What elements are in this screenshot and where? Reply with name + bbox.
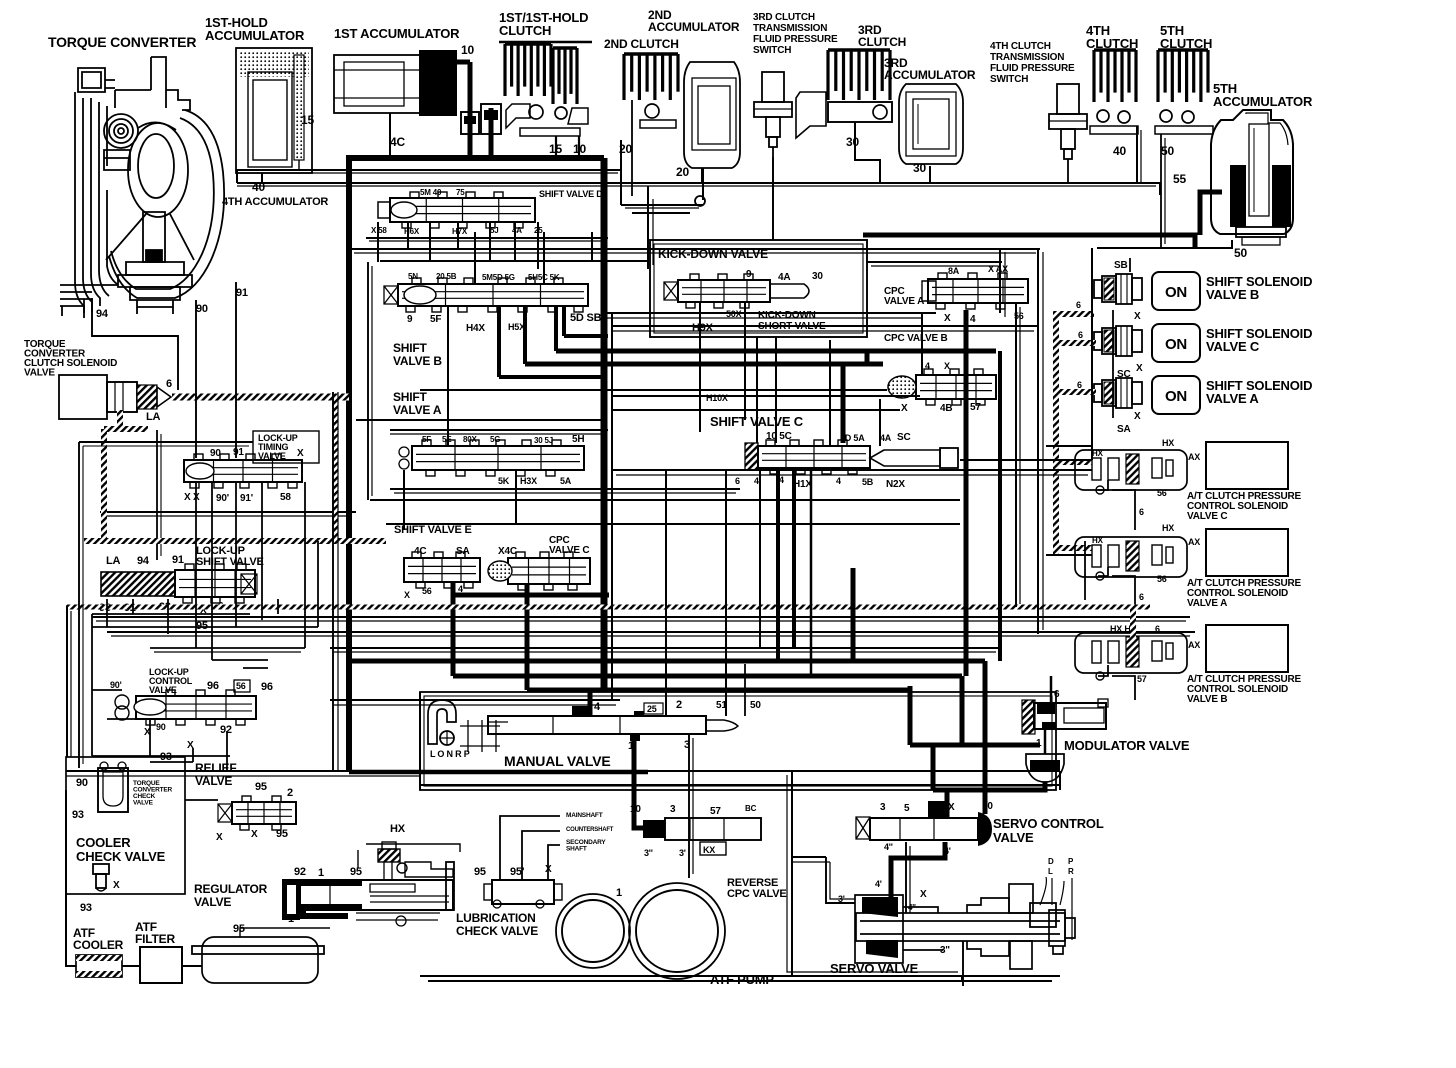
svg-text:10: 10 bbox=[461, 43, 474, 57]
svg-text:4C: 4C bbox=[390, 135, 405, 149]
wire servo box right edge bbox=[962, 941, 964, 986]
manual valve handle bbox=[428, 700, 456, 744]
svg-text:H10X: H10X bbox=[706, 393, 728, 403]
cpc valve C bbox=[508, 558, 590, 584]
svg-text:5F: 5F bbox=[430, 314, 441, 325]
svg-text:HX: HX bbox=[1162, 523, 1174, 533]
svg-text:56: 56 bbox=[422, 586, 432, 596]
svg-text:30: 30 bbox=[913, 161, 926, 175]
svg-text:H5X: H5X bbox=[508, 322, 525, 332]
wire thick segment y772 bbox=[349, 770, 648, 775]
shift valve B bbox=[398, 284, 588, 306]
svg-text:VALVE C: VALVE C bbox=[1206, 339, 1260, 354]
wire 1st-hold accumulator to line 40 bbox=[261, 173, 263, 183]
lubrication check valve bbox=[492, 880, 554, 904]
svg-text:H3X: H3X bbox=[520, 476, 537, 486]
wire thick vertical x604 bbox=[601, 158, 608, 689]
svg-text:4': 4' bbox=[944, 846, 951, 856]
svg-text:AX: AX bbox=[1188, 452, 1200, 462]
wire hatched long line y607 bbox=[66, 605, 1150, 610]
svg-text:95: 95 bbox=[350, 866, 362, 878]
svg-text:30: 30 bbox=[846, 135, 859, 149]
svg-text:4A: 4A bbox=[778, 272, 790, 283]
svg-text:3'': 3'' bbox=[644, 848, 653, 858]
svg-text:5F: 5F bbox=[422, 435, 431, 444]
atf cooler bbox=[76, 955, 122, 977]
svg-text:X: X bbox=[920, 889, 927, 900]
svg-text:30: 30 bbox=[812, 271, 823, 282]
svg-text:93: 93 bbox=[72, 809, 84, 821]
wires lubrication to shafts bbox=[500, 816, 560, 880]
svg-text:VALVE A: VALVE A bbox=[884, 296, 924, 307]
svg-text:FLUID PRESSURE: FLUID PRESSURE bbox=[753, 34, 838, 45]
svg-text:6: 6 bbox=[1076, 300, 1081, 310]
svg-text:40: 40 bbox=[1113, 144, 1126, 158]
lock-up shift valve bbox=[101, 572, 175, 596]
svg-text:8A: 8A bbox=[948, 266, 960, 276]
wire thick manual to reverse cpc bbox=[634, 734, 643, 828]
shift valve A bbox=[412, 446, 584, 470]
svg-text:10 5C: 10 5C bbox=[766, 431, 792, 442]
wire pair x157 bbox=[156, 430, 158, 560]
servo valve bbox=[855, 884, 1075, 969]
svg-text:4B: 4B bbox=[940, 403, 952, 414]
svg-text:3RD CLUTCH: 3RD CLUTCH bbox=[753, 12, 815, 23]
svg-text:5M 40: 5M 40 bbox=[420, 188, 442, 197]
svg-text:4': 4' bbox=[875, 879, 882, 889]
wire servo 3-prime approach bbox=[826, 857, 855, 903]
svg-text:MANUAL VALVE: MANUAL VALVE bbox=[504, 753, 611, 769]
wire thick manual valve port 4 stub bbox=[588, 689, 593, 716]
torque converter check valve bbox=[98, 768, 128, 812]
torque converter clutch solenoid valve bbox=[59, 375, 107, 419]
svg-text:25: 25 bbox=[647, 704, 657, 714]
svg-text:R: R bbox=[1068, 867, 1074, 876]
wire cooler-filter-strainer bbox=[122, 965, 140, 967]
svg-text:5A: 5A bbox=[560, 476, 572, 486]
regulator valve black elbow bbox=[303, 906, 348, 916]
svg-text:COOLER: COOLER bbox=[73, 938, 124, 952]
wire lockup area box top bbox=[79, 441, 253, 443]
manual valve spool bbox=[488, 716, 706, 734]
svg-text:90': 90' bbox=[110, 680, 122, 690]
wire hatched drain from tc solenoid X bbox=[117, 410, 123, 429]
shift solenoid valve A ON box bbox=[1152, 376, 1200, 414]
svg-text:6: 6 bbox=[1054, 689, 1060, 700]
wire long lubrication line bbox=[366, 844, 460, 852]
svg-text:1: 1 bbox=[288, 913, 294, 925]
wire hatched from tc solenoid bbox=[172, 394, 349, 401]
svg-text:HX: HX bbox=[1092, 449, 1104, 458]
svg-text:ACCUMULATOR: ACCUMULATOR bbox=[205, 28, 305, 43]
1st accumulator bbox=[334, 50, 457, 116]
svg-text:COUNTERSHAFT: COUNTERSHAFT bbox=[566, 827, 614, 833]
svg-text:KICK-DOWN: KICK-DOWN bbox=[758, 310, 816, 321]
svg-text:92: 92 bbox=[294, 866, 306, 878]
relief valve bbox=[232, 802, 296, 824]
svg-text:91': 91' bbox=[240, 493, 253, 504]
svg-text:L: L bbox=[1048, 867, 1053, 876]
wire long thick line y158 bbox=[346, 155, 604, 161]
svg-text:VALVE: VALVE bbox=[133, 800, 154, 807]
svg-text:30 5J: 30 5J bbox=[534, 436, 553, 445]
3rd clutch transmission fluid pressure switch bbox=[762, 72, 784, 102]
kick-down short valve plunger bbox=[770, 284, 809, 298]
cooler check valve bbox=[93, 864, 109, 874]
shift solenoid valve B ON box bbox=[1152, 272, 1200, 310]
wires solenoid feeds hatched bbox=[1053, 312, 1059, 556]
svg-text:5K: 5K bbox=[498, 476, 510, 486]
svg-text:X: X bbox=[944, 313, 951, 324]
svg-text:SC: SC bbox=[897, 432, 911, 443]
svg-text:KX: KX bbox=[703, 845, 715, 855]
wire hatched vertical x335 bbox=[332, 397, 338, 541]
svg-text:5J: 5J bbox=[490, 226, 499, 235]
svg-text:6: 6 bbox=[1077, 380, 1082, 390]
svg-text:SC: SC bbox=[1117, 369, 1131, 380]
1st-hold accumulator bbox=[236, 48, 312, 173]
svg-text:6: 6 bbox=[735, 476, 740, 486]
wires modulator valve bbox=[1044, 729, 1047, 754]
wire thick cpc valve C down bbox=[525, 584, 530, 690]
svg-text:SHIFT: SHIFT bbox=[393, 341, 428, 355]
torque converter bbox=[60, 57, 224, 318]
svg-text:6: 6 bbox=[166, 378, 172, 390]
svg-text:50: 50 bbox=[1234, 246, 1247, 260]
4th clutch bbox=[1090, 50, 1138, 134]
svg-text:FLUID PRESSURE: FLUID PRESSURE bbox=[990, 63, 1075, 74]
svg-text:H4X: H4X bbox=[466, 323, 485, 334]
svg-text:VALVE: VALVE bbox=[24, 368, 55, 379]
cpc valve B bbox=[916, 375, 996, 399]
svg-text:SA: SA bbox=[456, 546, 470, 557]
svg-text:REGULATOR: REGULATOR bbox=[194, 882, 268, 896]
atf filter bbox=[140, 947, 182, 983]
svg-text:55: 55 bbox=[1173, 172, 1186, 186]
check valve below 1st accumulator bbox=[461, 112, 479, 134]
3rd clutch bbox=[796, 50, 892, 138]
wire thick 55 to 5th accumulator bbox=[1200, 192, 1222, 235]
svg-text:6: 6 bbox=[1139, 507, 1144, 517]
svg-text:1ST ACCUMULATOR: 1ST ACCUMULATOR bbox=[334, 26, 460, 41]
wire thick line y235 to 5th accumulator bbox=[863, 235, 1195, 248]
svg-text:5M5D 5G: 5M5D 5G bbox=[482, 273, 515, 282]
svg-text:VALVE B: VALVE B bbox=[1187, 694, 1227, 705]
svg-text:H7X: H7X bbox=[452, 227, 468, 236]
wire thick shift valve E down bbox=[451, 582, 456, 676]
svg-text:SWITCH: SWITCH bbox=[990, 74, 1028, 85]
svg-text:VALVE: VALVE bbox=[194, 895, 231, 909]
servo valve top tabs bbox=[1030, 903, 1056, 927]
a/t clutch pressure control solenoid valve A block bbox=[1206, 529, 1288, 576]
manual valve detent bbox=[460, 720, 500, 752]
svg-text:ATF PUMP: ATF PUMP bbox=[710, 972, 774, 987]
svg-text:5D SB: 5D SB bbox=[570, 312, 602, 324]
modulator valve bbox=[1022, 700, 1035, 734]
svg-text:20: 20 bbox=[676, 165, 689, 179]
wire 10 down to thick line bbox=[578, 136, 580, 158]
wire long line y183 bbox=[237, 183, 1160, 195]
svg-text:90: 90 bbox=[76, 777, 88, 789]
svg-text:H6X: H6X bbox=[404, 227, 420, 236]
2nd clutch bbox=[624, 54, 678, 128]
wire left thin pair x79 bbox=[78, 442, 80, 768]
wire from 3rd accumulator down bbox=[929, 166, 931, 183]
svg-text:ACCUMULATOR: ACCUMULATOR bbox=[1213, 94, 1313, 109]
svg-text:5H: 5H bbox=[572, 434, 584, 445]
svg-text:X: X bbox=[1134, 311, 1141, 322]
wire 30 from 3rd clutch down bbox=[855, 122, 880, 183]
wire frame bottom servo bbox=[792, 771, 962, 981]
svg-text:50: 50 bbox=[1161, 144, 1174, 158]
wire left-bottom mesh verticals bbox=[66, 607, 68, 757]
svg-text:X: X bbox=[297, 448, 304, 459]
svg-text:SWITCH: SWITCH bbox=[753, 45, 791, 56]
svg-text:SA: SA bbox=[1117, 424, 1131, 435]
svg-text:90: 90 bbox=[210, 448, 221, 459]
svg-text:AX: AX bbox=[1188, 640, 1200, 650]
wires a/t cpc valves bbox=[1098, 480, 1108, 490]
wire double line y238 below shift valve D bbox=[366, 237, 608, 239]
svg-text:TRANSMISSION: TRANSMISSION bbox=[990, 52, 1064, 63]
svg-text:4TH ACCUMULATOR: 4TH ACCUMULATOR bbox=[222, 196, 328, 208]
svg-text:X: X bbox=[216, 832, 223, 843]
svg-text:SHIFT: SHIFT bbox=[393, 390, 428, 404]
svg-text:56: 56 bbox=[236, 681, 246, 691]
svg-text:80X: 80X bbox=[463, 435, 477, 444]
svg-text:5: 5 bbox=[904, 803, 910, 814]
svg-text:4C: 4C bbox=[414, 546, 426, 557]
svg-text:SERVO CONTROL: SERVO CONTROL bbox=[993, 816, 1104, 831]
svg-text:VALVE A: VALVE A bbox=[1206, 391, 1259, 406]
svg-text:95: 95 bbox=[196, 620, 208, 632]
kick-down valve bbox=[678, 280, 770, 302]
svg-text:75: 75 bbox=[456, 188, 465, 197]
svg-text:H9X: H9X bbox=[692, 322, 714, 334]
wire thick check valve down bbox=[489, 108, 494, 158]
svg-text:4A: 4A bbox=[512, 226, 522, 235]
svg-text:VALVE C: VALVE C bbox=[549, 545, 589, 556]
svg-text:95: 95 bbox=[276, 828, 288, 840]
wire 91 bbox=[235, 282, 237, 458]
svg-text:93: 93 bbox=[80, 902, 92, 914]
regulator valve bbox=[282, 879, 300, 920]
shift valve D bbox=[390, 198, 535, 222]
svg-text:4A: 4A bbox=[880, 433, 892, 443]
svg-text:X4C: X4C bbox=[498, 546, 517, 557]
svg-text:FILTER: FILTER bbox=[135, 932, 175, 946]
wire from 4th switch down bbox=[1067, 159, 1069, 183]
svg-text:4: 4 bbox=[754, 476, 759, 486]
svg-text:D: D bbox=[1048, 857, 1054, 866]
svg-text:TORQUE CONVERTER: TORQUE CONVERTER bbox=[48, 34, 196, 50]
servo valve black piston bottom bbox=[866, 940, 898, 958]
svg-text:92: 92 bbox=[220, 724, 232, 736]
svg-text:4'': 4'' bbox=[908, 903, 916, 912]
svg-text:91: 91 bbox=[236, 287, 248, 299]
svg-text:CPC VALVE: CPC VALVE bbox=[727, 888, 787, 900]
svg-text:4TH CLUTCH: 4TH CLUTCH bbox=[990, 41, 1051, 52]
wire strainer inlet bbox=[240, 928, 330, 937]
atf pump gear 1 bbox=[556, 894, 630, 968]
shift solenoid valve B solenoid symbol bbox=[1094, 280, 1102, 298]
svg-text:4: 4 bbox=[836, 476, 841, 486]
regulator valve top bolt bbox=[378, 849, 400, 862]
wire 94 bbox=[92, 298, 178, 390]
svg-text:VALVE: VALVE bbox=[993, 830, 1034, 845]
svg-text:HX: HX bbox=[1162, 438, 1174, 448]
3rd accumulator bbox=[899, 84, 963, 164]
svg-text:6: 6 bbox=[1139, 592, 1144, 602]
1st/1st-hold clutch bbox=[499, 42, 592, 136]
lock-up control valve bbox=[136, 696, 256, 719]
wire mesh horizontal lines bbox=[632, 212, 690, 214]
wire from 3rd switch down bbox=[772, 147, 774, 240]
svg-text:RELIEF: RELIEF bbox=[195, 761, 236, 775]
kick-down valve enclosure bbox=[650, 240, 867, 337]
wire mesh vertical lines bbox=[377, 222, 379, 262]
enclosure cooler check valve box bbox=[66, 757, 185, 894]
wire 20 elbow from 2nd clutch to shift valve D bbox=[620, 140, 622, 205]
wire box to relief valve bbox=[185, 799, 218, 801]
enclosure kick-down feeder bbox=[772, 157, 774, 240]
svg-text:SHIFT VALVE D: SHIFT VALVE D bbox=[539, 189, 603, 199]
shift valve E bbox=[404, 558, 480, 582]
svg-text:94: 94 bbox=[137, 555, 150, 567]
svg-text:VALVE C: VALVE C bbox=[1187, 511, 1227, 522]
svg-text:SHIFT VALVE: SHIFT VALVE bbox=[196, 556, 264, 568]
4th clutch transmission fluid pressure switch bbox=[1057, 84, 1079, 114]
check valve 2 below 1st accumulator bbox=[481, 104, 501, 134]
wire thin 50 line to 5th accumulator bbox=[1097, 240, 1232, 248]
reverse cpc valve bbox=[643, 820, 665, 838]
servo control valve bbox=[856, 817, 870, 839]
svg-text:ACCUMULATOR: ACCUMULATOR bbox=[884, 68, 976, 82]
svg-text:95: 95 bbox=[233, 923, 245, 935]
svg-text:AX: AX bbox=[1188, 537, 1200, 547]
wire hatched horizontal mid-left bbox=[84, 538, 386, 544]
svg-text:X X: X X bbox=[184, 492, 200, 503]
svg-text:95: 95 bbox=[474, 866, 486, 878]
svg-text:CHECK VALVE: CHECK VALVE bbox=[76, 849, 166, 864]
modulator valve cup bbox=[1026, 754, 1064, 782]
svg-text:X: X bbox=[251, 829, 258, 840]
shift solenoid valve A solenoid symbol bbox=[1094, 384, 1102, 402]
svg-text:9: 9 bbox=[407, 314, 413, 325]
svg-text:VALVE A: VALVE A bbox=[1187, 598, 1227, 609]
svg-text:X: X bbox=[404, 590, 410, 600]
svg-text:15: 15 bbox=[301, 113, 314, 127]
a/t clutch pressure control solenoid valve C block bbox=[1206, 442, 1288, 489]
svg-text:N2X: N2X bbox=[886, 479, 905, 490]
svg-text:HX: HX bbox=[390, 823, 406, 835]
svg-text:56: 56 bbox=[1157, 574, 1167, 584]
svg-text:3'': 3'' bbox=[940, 945, 950, 956]
wire left loop to atf cooler bbox=[66, 790, 76, 966]
atf strainer pan bbox=[202, 937, 318, 983]
svg-text:X: X bbox=[1136, 363, 1143, 374]
svg-text:X: X bbox=[901, 403, 908, 414]
svg-text:CPC VALVE B: CPC VALVE B bbox=[884, 333, 948, 344]
shift valve C right plunger bbox=[870, 450, 940, 466]
svg-text:VALVE A: VALVE A bbox=[393, 403, 442, 417]
svg-text:SHAFT: SHAFT bbox=[566, 846, 587, 853]
svg-text:91: 91 bbox=[233, 447, 244, 458]
wire port 3 down bbox=[688, 734, 690, 878]
svg-text:ON: ON bbox=[1165, 336, 1187, 353]
servo valve black piston top bbox=[862, 897, 898, 917]
svg-text:SB: SB bbox=[1114, 260, 1128, 271]
wires D L P R bbox=[1040, 877, 1064, 905]
svg-text:LA: LA bbox=[106, 555, 121, 567]
svg-text:3: 3 bbox=[670, 804, 676, 815]
wire left-bottom mesh horizontals bbox=[212, 659, 268, 661]
svg-text:6: 6 bbox=[1078, 330, 1083, 340]
svg-text:4: 4 bbox=[970, 314, 976, 325]
wire from 4th clutch down bbox=[1136, 126, 1138, 183]
wire 20 from 2nd clutch down bbox=[631, 100, 633, 196]
svg-text:3': 3' bbox=[679, 848, 686, 858]
atf pump gear 2 bbox=[629, 883, 725, 979]
svg-text:50: 50 bbox=[750, 700, 761, 711]
svg-text:2: 2 bbox=[287, 787, 293, 799]
svg-text:L O N R P: L O N R P bbox=[430, 749, 470, 759]
svg-text:CHECK VALVE: CHECK VALVE bbox=[456, 924, 538, 938]
wire thick from 1st accumulator down (10) bbox=[468, 62, 473, 158]
shift solenoid valve C ON box bbox=[1152, 324, 1200, 362]
svg-text:58: 58 bbox=[280, 492, 291, 503]
svg-text:ON: ON bbox=[1165, 388, 1187, 405]
svg-text:20 5B: 20 5B bbox=[436, 272, 457, 281]
svg-text:2ND CLUTCH: 2ND CLUTCH bbox=[604, 37, 679, 51]
svg-text:90: 90 bbox=[156, 722, 166, 732]
wire from 2nd accumulator down bbox=[701, 168, 703, 183]
svg-text:9: 9 bbox=[746, 269, 752, 280]
svg-text:57: 57 bbox=[1137, 674, 1147, 684]
svg-text:90': 90' bbox=[216, 493, 229, 504]
svg-text:1: 1 bbox=[318, 867, 324, 879]
svg-text:SHIFT VALVE E: SHIFT VALVE E bbox=[394, 524, 472, 536]
enclosure shift valve group box left bbox=[367, 262, 369, 500]
svg-text:90: 90 bbox=[196, 303, 208, 315]
svg-text:5G: 5G bbox=[490, 435, 500, 444]
svg-text:X: X bbox=[944, 361, 950, 371]
wire 15 down to thick line bbox=[555, 136, 557, 158]
svg-text:LUBRICATION: LUBRICATION bbox=[456, 911, 536, 925]
a/t clutch pressure control solenoid valve B block bbox=[1206, 625, 1288, 672]
svg-text:BC: BC bbox=[745, 804, 757, 813]
svg-text:P: P bbox=[1068, 857, 1074, 866]
svg-text:57: 57 bbox=[970, 402, 981, 413]
wires solenoid SB riser bbox=[1129, 258, 1131, 272]
wire long double line y170 bbox=[237, 169, 621, 171]
svg-text:5N: 5N bbox=[408, 272, 418, 281]
svg-text:TRANSMISSION: TRANSMISSION bbox=[753, 23, 827, 34]
wire from 5th clutch down (50) bbox=[1160, 134, 1162, 248]
manual valve enclosure bbox=[420, 692, 1056, 790]
a/t clutch pressure control solenoid valve B body bbox=[1075, 633, 1187, 673]
a/t clutch pressure control solenoid valve C body bbox=[1075, 450, 1187, 490]
svg-text:CLUTCH: CLUTCH bbox=[858, 35, 906, 49]
svg-text:HX: HX bbox=[1092, 536, 1104, 545]
shift solenoid valve C solenoid symbol bbox=[1094, 332, 1102, 350]
svg-text:ACCUMULATOR: ACCUMULATOR bbox=[648, 20, 740, 34]
svg-text:ON: ON bbox=[1165, 284, 1187, 301]
svg-text:91: 91 bbox=[172, 554, 184, 566]
svg-text:VALVE B: VALVE B bbox=[393, 354, 442, 368]
svg-text:LA: LA bbox=[146, 411, 161, 423]
5th accumulator bbox=[1211, 110, 1293, 245]
